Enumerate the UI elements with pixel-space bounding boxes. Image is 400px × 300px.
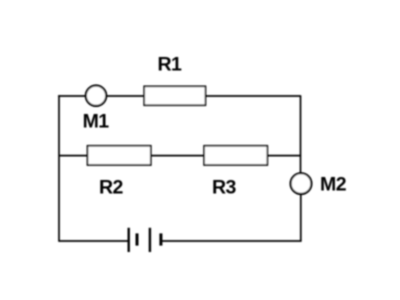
wire left side vertical bbox=[58, 95, 60, 241]
wire top-left segment bbox=[58, 95, 86, 97]
resistor R2 (box symbol) bbox=[88, 146, 151, 165]
battery cell 2 long plate bbox=[149, 228, 151, 252]
svg-text:M2: M2 bbox=[320, 174, 347, 196]
meter M1 (circle symbol) bbox=[86, 86, 106, 106]
svg-text:R2: R2 bbox=[99, 177, 124, 199]
svg-text:R3: R3 bbox=[212, 177, 237, 199]
resistor R1 (box symbol) bbox=[144, 86, 205, 105]
wire middle-left segment bbox=[59, 155, 88, 157]
wire R1 to top-right corner bbox=[205, 95, 300, 97]
battery cell 2 short plate bbox=[159, 233, 162, 245]
wire bottom-left segment (battery to corner) bbox=[59, 240, 129, 242]
wire M1 to R1 bbox=[106, 95, 145, 97]
wire bottom-right segment (corner to battery) bbox=[161, 240, 302, 242]
meter M2 (circle symbol) bbox=[291, 173, 312, 194]
wire right side lower (M2 down to bottom corner) bbox=[300, 194, 302, 241]
resistor R3 (box symbol) bbox=[204, 146, 267, 165]
svg-text:R1: R1 bbox=[157, 54, 182, 76]
wire right side upper (top corner down to M2) bbox=[300, 95, 302, 173]
svg-text:M1: M1 bbox=[83, 111, 110, 133]
battery cell 1 short plate bbox=[136, 233, 139, 245]
wire R2 to R3 bbox=[151, 155, 205, 157]
battery cell 1 long plate bbox=[127, 228, 129, 252]
wire R3 to right side bbox=[267, 155, 301, 157]
